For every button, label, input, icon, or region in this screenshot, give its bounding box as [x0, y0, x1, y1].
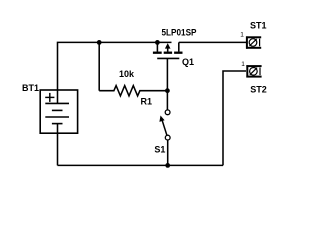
wire bottom rail: [58, 164, 224, 166]
node junction R1 / Q1 gate lead: [165, 88, 170, 93]
node junction top rail / R1 drop: [97, 40, 102, 45]
connector ST1: [246, 36, 261, 48]
wire top rail battery+ to MOSFET source: [58, 42, 172, 103]
svg-text:1: 1: [240, 32, 244, 39]
svg-text:R1: R1: [141, 97, 153, 107]
connector ST2: [246, 65, 261, 77]
switch S1: [159, 110, 170, 165]
wire battery- down to bottom rail: [57, 124, 59, 166]
svg-text:1: 1: [241, 61, 245, 68]
svg-text:BT1: BT1: [22, 83, 39, 93]
svg-text:ST1: ST1: [250, 21, 267, 31]
svg-text:ST2: ST2: [250, 84, 267, 94]
resistor R1 10k: [99, 86, 167, 96]
svg-text:10k: 10k: [119, 69, 135, 79]
wire R1 drop from top rail: [98, 42, 100, 90]
battery BT1: [40, 90, 77, 133]
wire right riser to ST2: [223, 71, 246, 165]
svg-text:Q1: Q1: [182, 57, 194, 67]
svg-text:5LP01SP: 5LP01SP: [162, 28, 197, 38]
svg-text:S1: S1: [154, 145, 165, 155]
node junction bottom rail / S1: [165, 163, 170, 168]
transistor Q1 5LP01SP P-MOSFET: [153, 42, 183, 109]
node junction top rail / Q1 source: [155, 40, 160, 45]
wire Q1 drain to ST1: [179, 41, 246, 43]
